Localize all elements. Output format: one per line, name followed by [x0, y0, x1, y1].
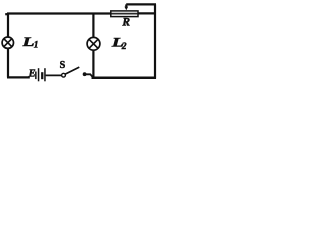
svg-text:1: 1 [34, 41, 39, 51]
svg-text:E: E [28, 69, 36, 80]
svg-text:R: R [121, 17, 130, 29]
svg-text:S: S [60, 60, 66, 71]
svg-text:L: L [21, 34, 35, 49]
svg-text:2: 2 [121, 42, 127, 52]
